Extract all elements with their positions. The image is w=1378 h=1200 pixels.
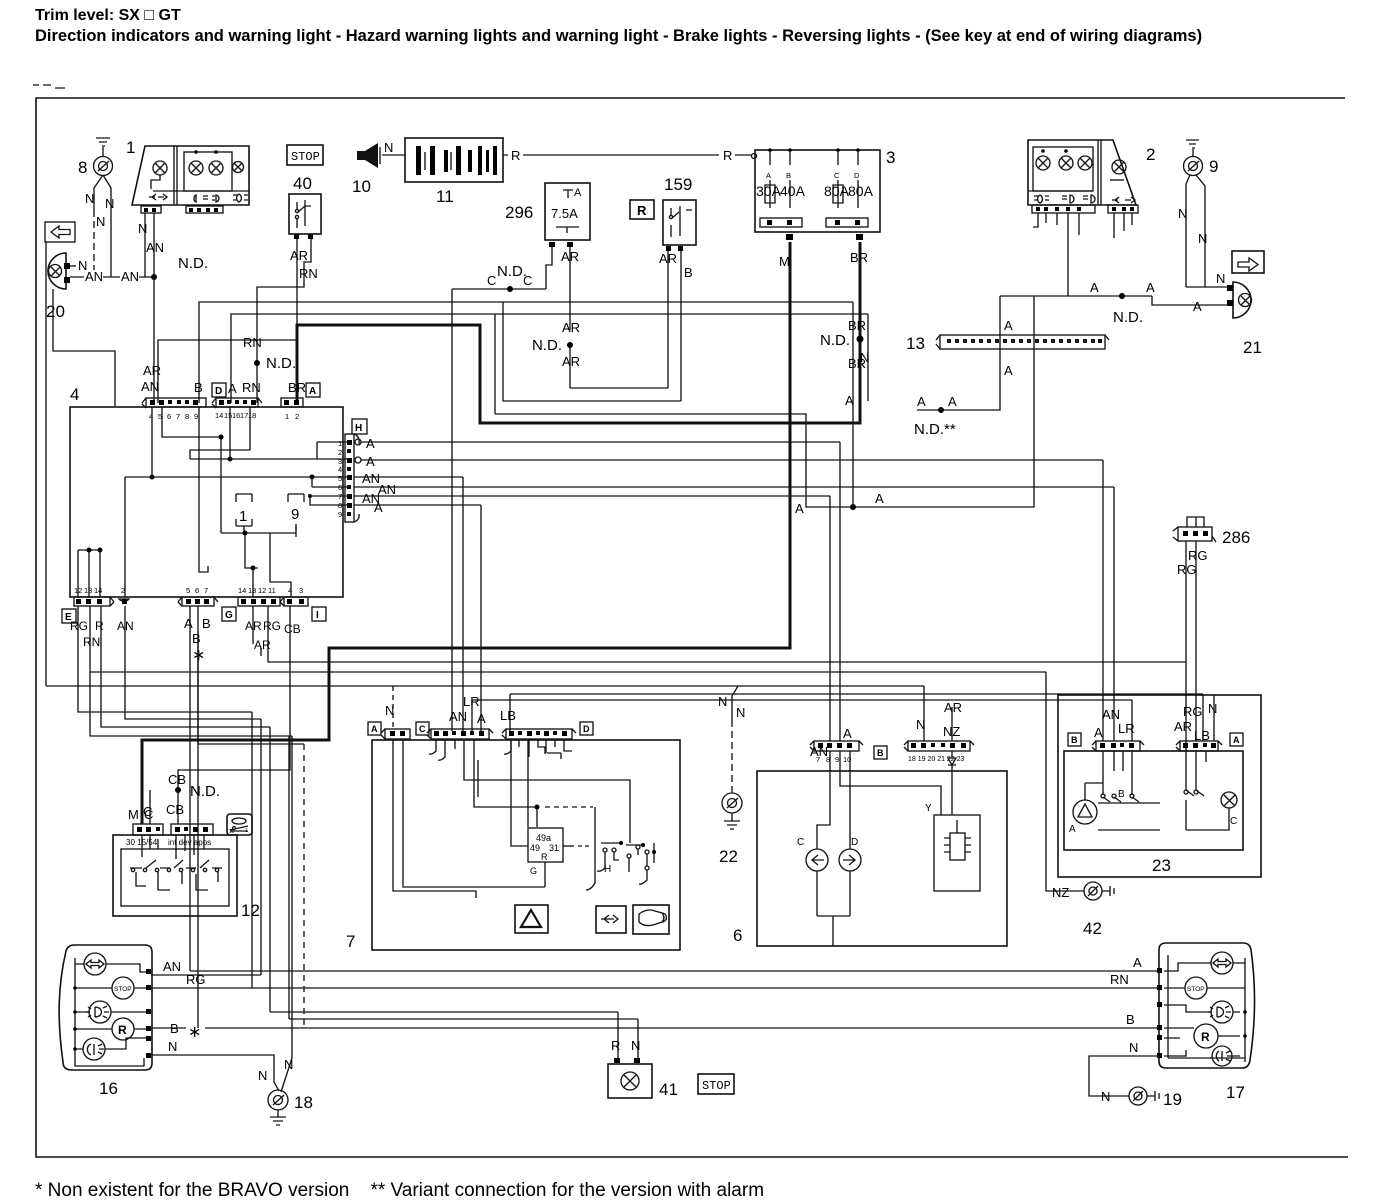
STOP label bottom	[698, 1074, 734, 1094]
svg-text:R: R	[95, 619, 104, 633]
svg-text:31: 31	[549, 843, 559, 853]
svg-text:AR: AR	[562, 320, 580, 335]
12 connector left	[133, 824, 163, 835]
svg-text:R: R	[723, 148, 732, 163]
wires RG from 286	[1186, 541, 1196, 751]
svg-text:2: 2	[121, 586, 125, 595]
svg-text:A: A	[184, 616, 193, 631]
svg-text:B: B	[877, 748, 884, 758]
svg-text:5: 5	[186, 586, 190, 595]
box6 internals: arrows C and D	[806, 849, 828, 871]
svg-text:9: 9	[338, 510, 342, 519]
headlamp cluster 1	[132, 146, 249, 205]
svg-text:8: 8	[78, 158, 87, 177]
repeater lamp 42	[1046, 672, 1084, 891]
svg-text:6: 6	[195, 586, 199, 595]
svg-text:3: 3	[299, 586, 303, 595]
wire N from 8	[94, 175, 111, 277]
svg-text:A: A	[1233, 735, 1240, 745]
svg-text:9: 9	[835, 755, 839, 764]
wire AN from H7 down to box6	[829, 496, 831, 741]
svg-text:LB: LB	[500, 708, 516, 723]
bus RG to 286/23	[268, 606, 1186, 662]
svg-text:N: N	[736, 705, 745, 720]
svg-text:N: N	[258, 1068, 267, 1083]
svg-text:6: 6	[338, 483, 342, 492]
bus LB	[510, 694, 1203, 741]
wires AR B from 159	[668, 251, 681, 401]
connector D label	[212, 383, 226, 397]
17 lamp turn	[1211, 952, 1233, 974]
svg-text:7: 7	[338, 492, 342, 501]
cluster 2 connectors	[1032, 205, 1095, 213]
svg-text:5: 5	[338, 474, 342, 483]
svg-text:12: 12	[258, 586, 266, 595]
wire RN from 40	[257, 239, 311, 403]
svg-text:8: 8	[185, 412, 189, 421]
svg-text:1: 1	[338, 439, 342, 448]
svg-text:N: N	[96, 214, 105, 229]
svg-text:B: B	[170, 1021, 179, 1036]
wire AR from 40	[158, 239, 297, 403]
svg-text:I: I	[316, 610, 319, 621]
cluster 2 icons	[1034, 195, 1049, 203]
svg-text:N: N	[1129, 1040, 1138, 1055]
horn icon	[633, 905, 669, 934]
svg-text:D: D	[851, 837, 858, 848]
svg-text:N.D.: N.D.	[820, 332, 850, 349]
connector D strip box7	[506, 729, 572, 739]
single pin 2	[119, 599, 129, 601]
lamp 18	[268, 1090, 288, 1110]
svg-text:8: 8	[338, 501, 342, 510]
svg-text:42: 42	[1083, 919, 1102, 938]
svg-text:80A: 80A	[848, 183, 874, 199]
svg-text:∗: ∗	[188, 1024, 201, 1041]
svg-text:N: N	[1198, 231, 1207, 246]
A bus with ND junction top right	[1000, 295, 1152, 297]
bus N	[46, 685, 924, 687]
svg-text:RG: RG	[1188, 548, 1208, 563]
cluster 1 icons	[149, 194, 167, 200]
svg-text:A: A	[917, 394, 926, 409]
svg-text:A: A	[1146, 280, 1155, 295]
svg-text:D: D	[854, 171, 860, 180]
wire long left vertical	[45, 242, 47, 686]
svg-text:10: 10	[352, 177, 371, 196]
wires into box6	[923, 686, 925, 741]
connector 20	[48, 253, 66, 289]
svg-text:3: 3	[886, 148, 895, 167]
svg-text:M: M	[128, 807, 139, 822]
turn signal unit box 6	[757, 771, 1007, 946]
svg-text:11: 11	[268, 586, 276, 595]
svg-text:41: 41	[659, 1080, 678, 1099]
STOP label 40	[287, 145, 323, 165]
svg-text:N.D.: N.D.	[1113, 309, 1143, 326]
svg-text:7: 7	[204, 586, 208, 595]
bold wire BR from fuse 3 to connector A	[297, 242, 860, 423]
svg-text:C: C	[797, 837, 804, 848]
svg-text:14: 14	[215, 411, 223, 420]
connector H strip	[345, 434, 354, 522]
svg-text:30A: 30A	[756, 183, 782, 199]
svg-text:N: N	[105, 196, 114, 211]
svg-text:R: R	[611, 1038, 620, 1053]
box7 D pin stubs	[504, 739, 572, 759]
headlamp cluster 2	[1028, 140, 1136, 205]
svg-text:N: N	[1216, 271, 1225, 286]
wire A net mid	[199, 296, 1034, 507]
connector I label	[312, 607, 326, 621]
svg-text:RG: RG	[263, 619, 281, 633]
16 internal wires	[75, 964, 148, 1049]
svg-text:2: 2	[338, 448, 342, 457]
svg-text:STOP: STOP	[1187, 986, 1205, 993]
svg-text:13: 13	[248, 586, 256, 595]
svg-text:N: N	[718, 694, 727, 709]
wire A to lamp 21	[1152, 296, 1228, 305]
svg-text:N: N	[168, 1039, 177, 1054]
box6 electronic module Y	[934, 815, 980, 891]
lamp box 41	[614, 1058, 620, 1063]
svg-text:6: 6	[733, 926, 742, 945]
svg-text:A: A	[1193, 299, 1202, 314]
arrow symbol 21	[1232, 251, 1264, 273]
svg-text:RN: RN	[1110, 972, 1129, 987]
svg-text:H: H	[604, 864, 611, 875]
relay 1 in box4	[236, 494, 252, 535]
wire R from 11 to fusebox 3	[503, 154, 752, 156]
wire B long to 17	[151, 1027, 1160, 1029]
svg-text:12: 12	[241, 901, 260, 920]
connector D label box7	[580, 722, 593, 735]
R label box 159	[630, 200, 654, 219]
rear lamp cluster 16	[59, 945, 152, 1070]
svg-text:23: 23	[1152, 856, 1171, 875]
bus LR	[472, 700, 1132, 741]
svg-text:N: N	[138, 221, 147, 236]
svg-text:R: R	[511, 148, 520, 163]
svg-text:N: N	[85, 191, 94, 206]
17 lamp R	[1194, 1024, 1218, 1048]
wire C down to box 7	[451, 289, 453, 731]
svg-text:N: N	[1208, 701, 1217, 716]
svg-text:30: 30	[229, 829, 235, 835]
svg-text:NZ: NZ	[943, 724, 960, 739]
wire C stub into 12	[149, 790, 151, 824]
wire N second to lamp 18	[281, 1058, 292, 1092]
svg-text:1: 1	[126, 138, 135, 157]
svg-text:18: 18	[294, 1093, 313, 1112]
wire A from H8	[354, 505, 481, 731]
17 lamp fog	[1211, 1001, 1233, 1023]
box7 switch 2	[627, 854, 631, 858]
svg-text:14: 14	[94, 586, 102, 595]
svg-text:AR: AR	[562, 354, 580, 369]
cluster 1 connectors	[141, 206, 161, 213]
wire 10 to 11	[382, 154, 405, 156]
wire AN from H6 down to box23	[1113, 487, 1115, 741]
connector A label 23	[1230, 733, 1243, 746]
svg-text:21: 21	[1243, 338, 1262, 357]
svg-text:BR: BR	[848, 318, 866, 333]
connector G strip	[182, 597, 214, 606]
lamp unit 8 ground	[96, 138, 110, 157]
connector A strip box7	[385, 729, 410, 739]
lamp 9 ground	[1186, 140, 1199, 157]
svg-text:STOP: STOP	[702, 1079, 731, 1093]
svg-text:RG: RG	[70, 619, 88, 633]
frame tick	[33, 85, 65, 88]
svg-text:STOP: STOP	[114, 986, 132, 993]
svg-text:AN: AN	[1102, 707, 1120, 722]
warning triangle icon	[515, 905, 548, 933]
wire from 20 down	[53, 289, 115, 406]
svg-text:B: B	[1118, 789, 1125, 800]
17 internal wires	[1164, 963, 1245, 1012]
svg-text:6: 6	[167, 412, 171, 421]
wire A from H3 down to box23	[1102, 460, 1104, 741]
svg-text:N: N	[385, 703, 394, 718]
connector B label box6	[874, 746, 887, 759]
svg-text:A: A	[366, 454, 375, 469]
svg-text:7: 7	[346, 932, 355, 951]
flasher relay in box7	[528, 828, 563, 862]
svg-text:B: B	[202, 616, 211, 631]
svg-text:7: 7	[176, 412, 180, 421]
wires R N to lamp 41	[618, 1012, 638, 1062]
svg-text:D: D	[215, 386, 222, 397]
svg-text:C: C	[419, 724, 426, 734]
connector B strip left box6	[814, 741, 859, 751]
svg-text:18 19 20 21 22 23: 18 19 20 21 22 23	[908, 756, 965, 763]
wire A through strip 13	[917, 296, 1000, 410]
svg-text:STOP: STOP	[291, 150, 320, 164]
svg-text:7: 7	[816, 755, 820, 764]
svg-text:RN: RN	[242, 380, 261, 395]
svg-text:Trim level: SX □ GT: Trim level: SX □ GT	[35, 7, 181, 24]
connector D strip	[142, 398, 146, 408]
relay 40	[289, 194, 321, 234]
svg-text:A: A	[477, 711, 486, 726]
svg-text:A: A	[1090, 280, 1099, 295]
connector E strip	[74, 597, 110, 606]
connector E label	[62, 609, 76, 623]
svg-text:CB: CB	[168, 772, 186, 787]
svg-text:49: 49	[530, 843, 540, 853]
wire N from 16 to lamp 18	[151, 1055, 279, 1091]
svg-text:A: A	[228, 381, 237, 396]
svg-text:BR: BR	[850, 250, 868, 265]
bus RN-NZ	[90, 606, 1046, 672]
17 lamp stop	[1185, 977, 1207, 999]
svg-text:13: 13	[906, 334, 925, 353]
ignition switch 12	[113, 835, 237, 916]
svg-text:A: A	[1069, 824, 1076, 835]
23 internals	[1073, 800, 1097, 824]
box7 switch H	[603, 848, 607, 852]
relay 9 in box4	[288, 494, 304, 502]
wire AN from H6	[354, 486, 1114, 488]
svg-text:9: 9	[194, 412, 198, 421]
svg-text:G: G	[225, 610, 233, 621]
svg-text:N: N	[384, 140, 393, 155]
svg-text:N: N	[78, 258, 87, 273]
svg-text:2: 2	[1146, 145, 1155, 164]
svg-text:B: B	[192, 631, 201, 646]
svg-text:LB: LB	[1194, 728, 1210, 743]
wire N to 17 and lamp 19	[1089, 1056, 1160, 1096]
svg-text:AR: AR	[944, 700, 962, 715]
svg-text:2: 2	[295, 412, 299, 421]
E G I pin wires	[78, 606, 292, 1058]
svg-text:13: 13	[84, 586, 92, 595]
connector G label	[222, 607, 236, 621]
hazard unit box 7	[372, 740, 680, 950]
svg-text:AN: AN	[141, 379, 159, 394]
svg-text:4: 4	[288, 586, 292, 595]
svg-text:1: 1	[245, 828, 248, 834]
svg-text:Direction indicators and warni: Direction indicators and warning light -…	[35, 27, 1202, 45]
svg-text:R: R	[541, 852, 548, 862]
wire A vertical	[852, 302, 854, 507]
svg-text:B: B	[786, 171, 791, 180]
svg-text:80A: 80A	[824, 183, 850, 199]
connector strip 14-18	[212, 398, 262, 408]
svg-text:H: H	[355, 423, 362, 434]
svg-text:A: A	[1133, 955, 1142, 970]
diode below pin22	[948, 751, 956, 775]
connector B label 23	[1068, 733, 1081, 746]
wire N from cluster 1	[144, 213, 146, 277]
fusebox 3	[755, 150, 880, 232]
svg-text:N: N	[860, 350, 869, 365]
svg-text:N.D.**: N.D.**	[914, 421, 956, 438]
svg-text:18: 18	[248, 411, 256, 420]
svg-text:Y: Y	[925, 803, 932, 814]
svg-text:C: C	[1230, 816, 1237, 827]
svg-text:AN: AN	[163, 959, 181, 974]
svg-text:296: 296	[505, 203, 533, 222]
connector B strip right box6	[908, 741, 970, 751]
wire C from 296 with ND	[452, 247, 552, 289]
connector C strip box7	[431, 729, 489, 739]
fuse unit box 4	[70, 407, 343, 597]
svg-text:12: 12	[74, 586, 82, 595]
box4 internal bottom wires	[221, 524, 296, 597]
lift icon plate	[227, 814, 252, 835]
svg-text:N.D.: N.D.	[190, 783, 220, 800]
lamp unit 8	[94, 157, 113, 176]
svg-text:17: 17	[1226, 1083, 1245, 1102]
svg-text:CB: CB	[166, 802, 184, 817]
connector H label	[352, 419, 367, 434]
svg-text:N.D.: N.D.	[532, 337, 562, 354]
svg-text:A: A	[366, 436, 375, 451]
svg-text:16: 16	[99, 1079, 118, 1098]
svg-text:A: A	[1094, 725, 1103, 740]
box7 internal wires	[393, 739, 630, 898]
svg-text:RN: RN	[299, 266, 318, 281]
svg-text:C: C	[143, 804, 152, 819]
wire B dashed from G	[198, 640, 304, 744]
svg-text:49a: 49a	[536, 833, 551, 843]
wire AR from 296	[570, 247, 668, 388]
svg-text:A: A	[309, 386, 316, 397]
svg-text:9: 9	[291, 506, 299, 523]
svg-text:B: B	[194, 380, 203, 395]
svg-text:A: A	[843, 726, 852, 741]
svg-text:AR: AR	[561, 249, 579, 264]
12 connector right	[171, 824, 213, 835]
battery 11	[405, 138, 503, 182]
lamp 9	[1184, 157, 1203, 176]
svg-text:A: A	[374, 500, 383, 515]
wire N into 23	[1213, 695, 1215, 741]
12 internals	[142, 835, 204, 859]
svg-text:A: A	[795, 501, 804, 516]
svg-text:AR: AR	[290, 248, 308, 263]
connector strip 14-11	[238, 597, 280, 606]
svg-text:C: C	[487, 273, 496, 288]
box7 switch 3	[639, 843, 654, 884]
svg-text:AN: AN	[378, 482, 396, 497]
svg-text:G: G	[530, 866, 537, 876]
wire CB to box12	[178, 606, 290, 824]
indicator arrows icon	[596, 906, 626, 933]
svg-text:22: 22	[719, 847, 738, 866]
wire AN from cluster 1	[153, 213, 155, 277]
16 lamp R	[112, 1018, 134, 1040]
relay 159	[663, 200, 696, 245]
svg-text:286: 286	[1222, 528, 1250, 547]
fuse 296	[545, 183, 590, 240]
wire A long to 17	[190, 970, 1160, 972]
rear lamp cluster 17	[1159, 943, 1255, 1068]
svg-text:B: B	[1126, 1012, 1135, 1027]
svg-text:AR: AR	[245, 619, 262, 633]
svg-text:RG: RG	[186, 972, 206, 987]
svg-text:N: N	[1101, 1089, 1110, 1104]
svg-text:A: A	[1004, 318, 1013, 333]
svg-text:AN: AN	[121, 269, 139, 284]
svg-text:R: R	[118, 1023, 127, 1037]
svg-text:A: A	[574, 187, 582, 199]
connector strip 13	[940, 335, 1105, 349]
lamp 21	[1233, 282, 1251, 318]
svg-text:11: 11	[436, 187, 454, 206]
svg-text:RN: RN	[243, 335, 262, 350]
bottom long wires R N	[270, 1012, 638, 1019]
box4 internal wires	[152, 407, 250, 572]
svg-text:1: 1	[239, 508, 247, 525]
connector A strip 23	[1180, 741, 1218, 751]
wire AN from H5	[354, 477, 463, 731]
svg-text:20: 20	[46, 302, 65, 321]
svg-text:C: C	[834, 171, 840, 180]
svg-text:N.D.: N.D.	[497, 263, 527, 280]
17 lamp reverse	[1212, 1046, 1232, 1066]
svg-text:AN: AN	[146, 240, 164, 255]
AN bus with ND junction	[70, 276, 155, 278]
svg-text:A: A	[766, 171, 771, 180]
connector I strip	[284, 597, 308, 606]
svg-text:N: N	[916, 717, 925, 732]
wire N into box7	[392, 686, 394, 729]
svg-text:A: A	[371, 724, 378, 734]
svg-text:LR: LR	[1118, 721, 1135, 736]
